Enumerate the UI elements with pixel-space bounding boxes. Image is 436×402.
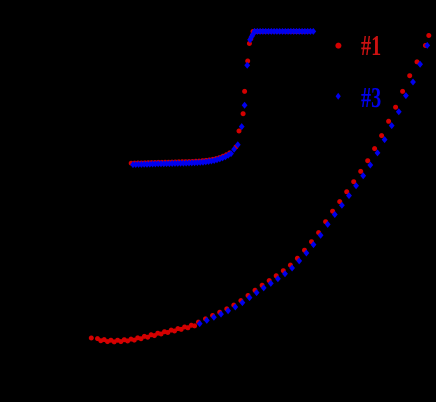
legend marker #3 (blue diamond) (336, 93, 341, 100)
legend label #1 (361, 33, 381, 61)
series #3 (blue thin-diamond markers): upper transition curve + lower curve (130, 28, 430, 327)
series #1 (red circle markers): upper transition curve + lower curve (89, 29, 432, 344)
legend label #3 (361, 85, 381, 113)
legend marker #1 (red) (335, 43, 341, 49)
